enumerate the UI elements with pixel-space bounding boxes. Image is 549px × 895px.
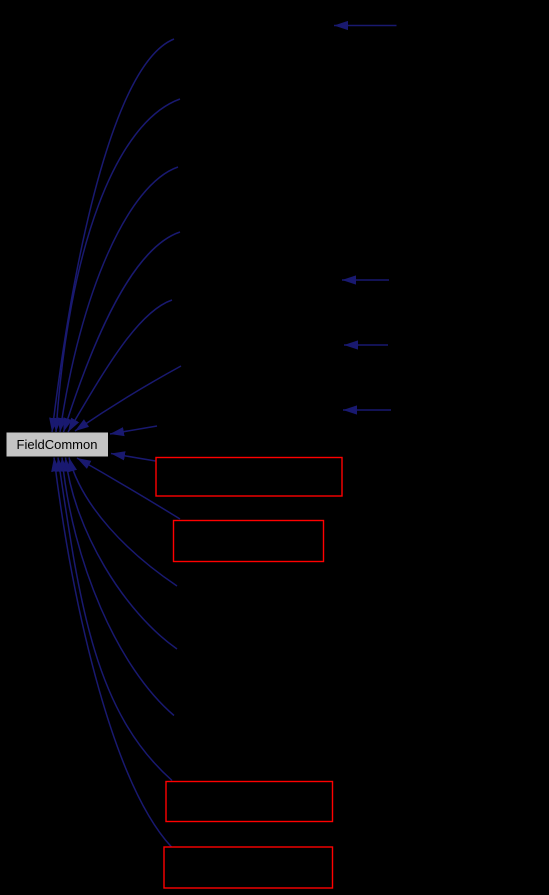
red node 3 [166,782,333,822]
edge to node at y99 [56,99,180,432]
edge to node at y232 [64,232,181,432]
arrow top right [334,25,397,27]
red node 4 [164,847,333,888]
arrow mid right 2 [344,344,388,346]
arrow mid right 1 [342,279,389,281]
edge to node at y39 [52,39,174,432]
edge from node at y426 into right side [110,426,157,434]
edge to red node 2 [77,458,180,519]
arrow mid right 3 [343,409,391,411]
edge from red node 1 into right side [111,454,156,462]
edge to node at y167 [60,167,178,432]
edge to red node 4 [54,458,172,848]
node FieldCommon [7,433,109,457]
red node 1 [156,458,342,497]
edge to node at y714 [62,458,174,716]
edge to node at y649 [66,458,178,650]
edge to red node 3 [58,458,172,781]
edge to node at y303 [68,300,172,432]
edge to node at y366 [75,366,181,431]
svg-text:FieldCommon: FieldCommon [17,437,98,452]
red node 2 [174,521,324,562]
edge to node at y586 [69,458,177,587]
